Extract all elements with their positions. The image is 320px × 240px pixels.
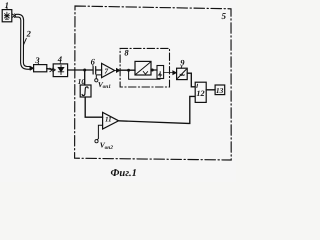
Vop1 reference input xyxy=(95,75,112,90)
wire box3 to box4 xyxy=(47,69,53,70)
wire node A down to block 10 xyxy=(84,70,86,85)
arrow into box 3 xyxy=(30,66,34,70)
box 5 (outer dash-dot enclosure) xyxy=(75,6,232,160)
wire box8 to box 9 with arrowhead xyxy=(164,71,177,75)
label 10 xyxy=(78,77,86,86)
wire amp7 to box 8 with arrowhead xyxy=(115,69,120,73)
svg-text:7: 7 xyxy=(104,66,108,75)
svg-text:13: 13 xyxy=(216,86,224,95)
feedback wire in box 8 xyxy=(129,70,160,79)
svg-text:8: 8 xyxy=(124,47,129,57)
block 9 (function converter) xyxy=(177,68,188,79)
wire capacitor to amp 7 xyxy=(96,69,102,71)
svg-text:оп2: оп2 xyxy=(105,145,114,151)
block 12 xyxy=(195,82,206,102)
wire amp11 to block 12 xyxy=(119,96,195,123)
photodetector block 4 xyxy=(53,64,67,77)
arrows into photodetector 4 xyxy=(50,68,56,72)
label 4 xyxy=(57,54,62,64)
arrows out of block 1 xyxy=(12,14,17,18)
svg-text:Фиг.1: Фиг.1 xyxy=(111,168,137,179)
svg-text:11: 11 xyxy=(105,115,112,123)
wire block 12 to block 13 xyxy=(206,89,215,91)
small block in box 8 xyxy=(157,66,164,79)
wire into converter xyxy=(120,69,135,71)
node junction B xyxy=(127,69,130,72)
box 8 (inner dash-dot enclosure) xyxy=(120,48,169,87)
fiber 2 (double line) xyxy=(17,16,30,68)
label 3 xyxy=(34,55,40,65)
node junction C xyxy=(151,69,157,72)
block 13 xyxy=(215,85,225,95)
wire block 10 to amp 11 xyxy=(85,97,102,117)
svg-text:2: 2 xyxy=(26,28,32,38)
svg-text:9: 9 xyxy=(180,58,185,68)
label 9 xyxy=(180,58,185,69)
capacitor 6 xyxy=(93,67,96,74)
node junction A xyxy=(83,69,86,72)
op-amp U11 xyxy=(103,112,119,129)
label 2 with leader xyxy=(23,28,31,45)
svg-text:3: 3 xyxy=(34,55,40,65)
svg-text:12: 12 xyxy=(196,89,204,98)
box 3 xyxy=(34,65,47,72)
op-amp U7 xyxy=(102,63,115,77)
label 1 xyxy=(5,0,9,10)
wire block9 to block 12 xyxy=(187,73,195,87)
converter block (diagonal) in box 8 xyxy=(135,61,151,75)
svg-text:оп1: оп1 xyxy=(103,84,112,90)
light source block 1 xyxy=(2,10,12,22)
Vop2 reference input xyxy=(95,125,113,151)
wire box4 to junction and capacitor xyxy=(68,69,93,71)
svg-text:4: 4 xyxy=(57,54,62,64)
label 6 xyxy=(91,57,96,67)
integrator block 10 xyxy=(80,85,91,97)
svg-text:5: 5 xyxy=(222,11,227,21)
